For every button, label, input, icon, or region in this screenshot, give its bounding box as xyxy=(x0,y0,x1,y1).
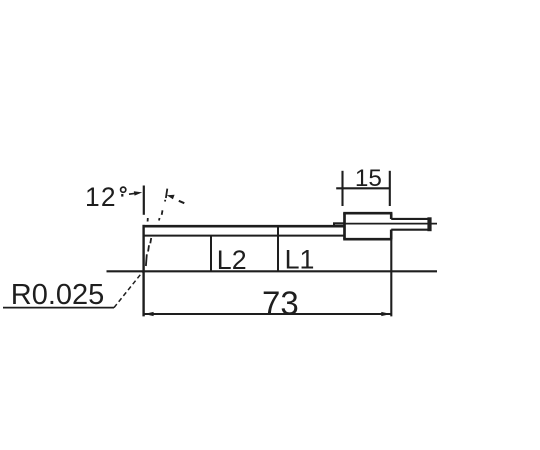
svg-text:15: 15 xyxy=(355,165,382,192)
svg-text:73: 73 xyxy=(262,284,299,321)
svg-text:L2: L2 xyxy=(217,245,247,275)
svg-text:12: 12 xyxy=(85,182,117,212)
svg-text:R0.025: R0.025 xyxy=(11,279,105,311)
svg-text:L1: L1 xyxy=(285,245,315,275)
